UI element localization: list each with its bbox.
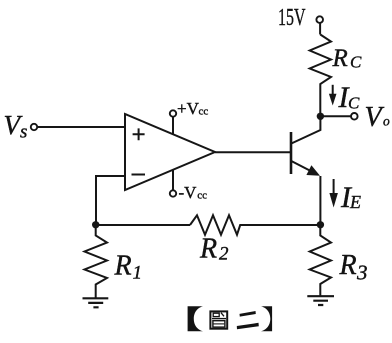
svg-text:2: 2 [219, 244, 229, 265]
svg-text:E: E [349, 192, 361, 212]
svg-text:C: C [348, 94, 360, 113]
svg-text:15V: 15V [278, 5, 306, 31]
svg-text:1: 1 [133, 262, 143, 283]
svg-text:+V: +V [177, 99, 200, 118]
svg-text:o: o [383, 114, 390, 129]
svg-text:R: R [339, 250, 357, 281]
svg-text:cc: cc [197, 189, 207, 201]
svg-text:cc: cc [199, 105, 209, 117]
svg-text:C: C [350, 53, 362, 72]
svg-text:R: R [332, 45, 348, 72]
svg-text:3: 3 [356, 261, 368, 285]
svg-text:s: s [20, 122, 27, 143]
svg-text:R: R [199, 234, 217, 265]
svg-text:R: R [114, 250, 132, 281]
svg-text:-V: -V [179, 183, 198, 202]
svg-text:V: V [365, 102, 385, 133]
